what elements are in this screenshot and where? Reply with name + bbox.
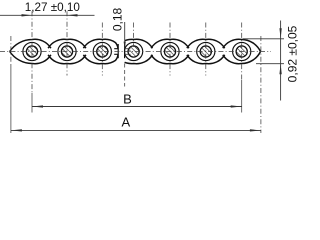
cable insulation outline: conductor 1 (left end, pointed tip)	[10, 39, 261, 63]
wire W4 stranded core (hatched)	[128, 46, 139, 57]
centerline C2	[66, 11, 68, 75]
centerline C3	[101, 23, 103, 76]
conductor 4 outline (cut at break)	[125, 39, 153, 48]
dimension B	[32, 105, 242, 107]
wire W7 outer circle	[233, 42, 251, 60]
centerline C6	[205, 23, 207, 76]
wire W2 outer circle	[58, 42, 76, 60]
conductor 7 outline (right end, pointed tip)	[223, 39, 261, 51]
svg-text:0,18: 0,18	[111, 7, 125, 31]
centerline C7	[241, 23, 243, 81]
conductor 5 outline	[151, 39, 189, 48]
svg-text:A: A	[121, 115, 130, 130]
wire W1 stranded core (hatched)	[26, 46, 37, 57]
conductor circles	[23, 42, 251, 60]
horizontal centerline	[0, 51, 271, 53]
dimension 1,27 +-0,10	[0, 14, 95, 16]
svg-text:0,92 ±0,05: 0,92 ±0,05	[285, 25, 299, 82]
conductor 3 outline (cut at break)	[83, 39, 118, 48]
centerline C1	[31, 11, 33, 93]
wire W6 outer circle	[197, 42, 215, 60]
extension line A left	[10, 36, 12, 64]
wire W5 outer circle	[161, 42, 179, 60]
svg-text:1,27 ±0,10: 1,27 ±0,10	[25, 1, 81, 14]
wire W2 stranded core (hatched)	[61, 46, 72, 57]
conductor 2 outline	[48, 39, 86, 48]
wire W1 outer circle	[23, 42, 41, 60]
centerline C4	[133, 23, 135, 48]
dimension 0,92 +-0,05	[243, 21, 285, 101]
wire W4 outer circle	[125, 42, 143, 60]
web bottom edge at break	[114, 53, 118, 55]
conductor 6 outline	[187, 39, 225, 48]
break cut face left	[117, 44, 119, 58]
wire W3 outer circle	[93, 42, 111, 60]
dimension A	[11, 129, 261, 131]
web top edge at break	[114, 48, 118, 50]
svg-text:B: B	[123, 91, 132, 106]
wire W6 stranded core (hatched)	[200, 46, 211, 57]
centerline C5	[169, 23, 171, 76]
wire W3 stranded core (hatched)	[97, 46, 108, 57]
wire W5 stranded core (hatched)	[164, 46, 175, 57]
wire W7 stranded core (hatched)	[236, 46, 247, 57]
vertical centerlines of conductors	[11, 11, 261, 133]
dimension 0,18	[124, 22, 131, 87]
extension line A right	[260, 36, 262, 133]
break cut face right	[124, 44, 126, 58]
